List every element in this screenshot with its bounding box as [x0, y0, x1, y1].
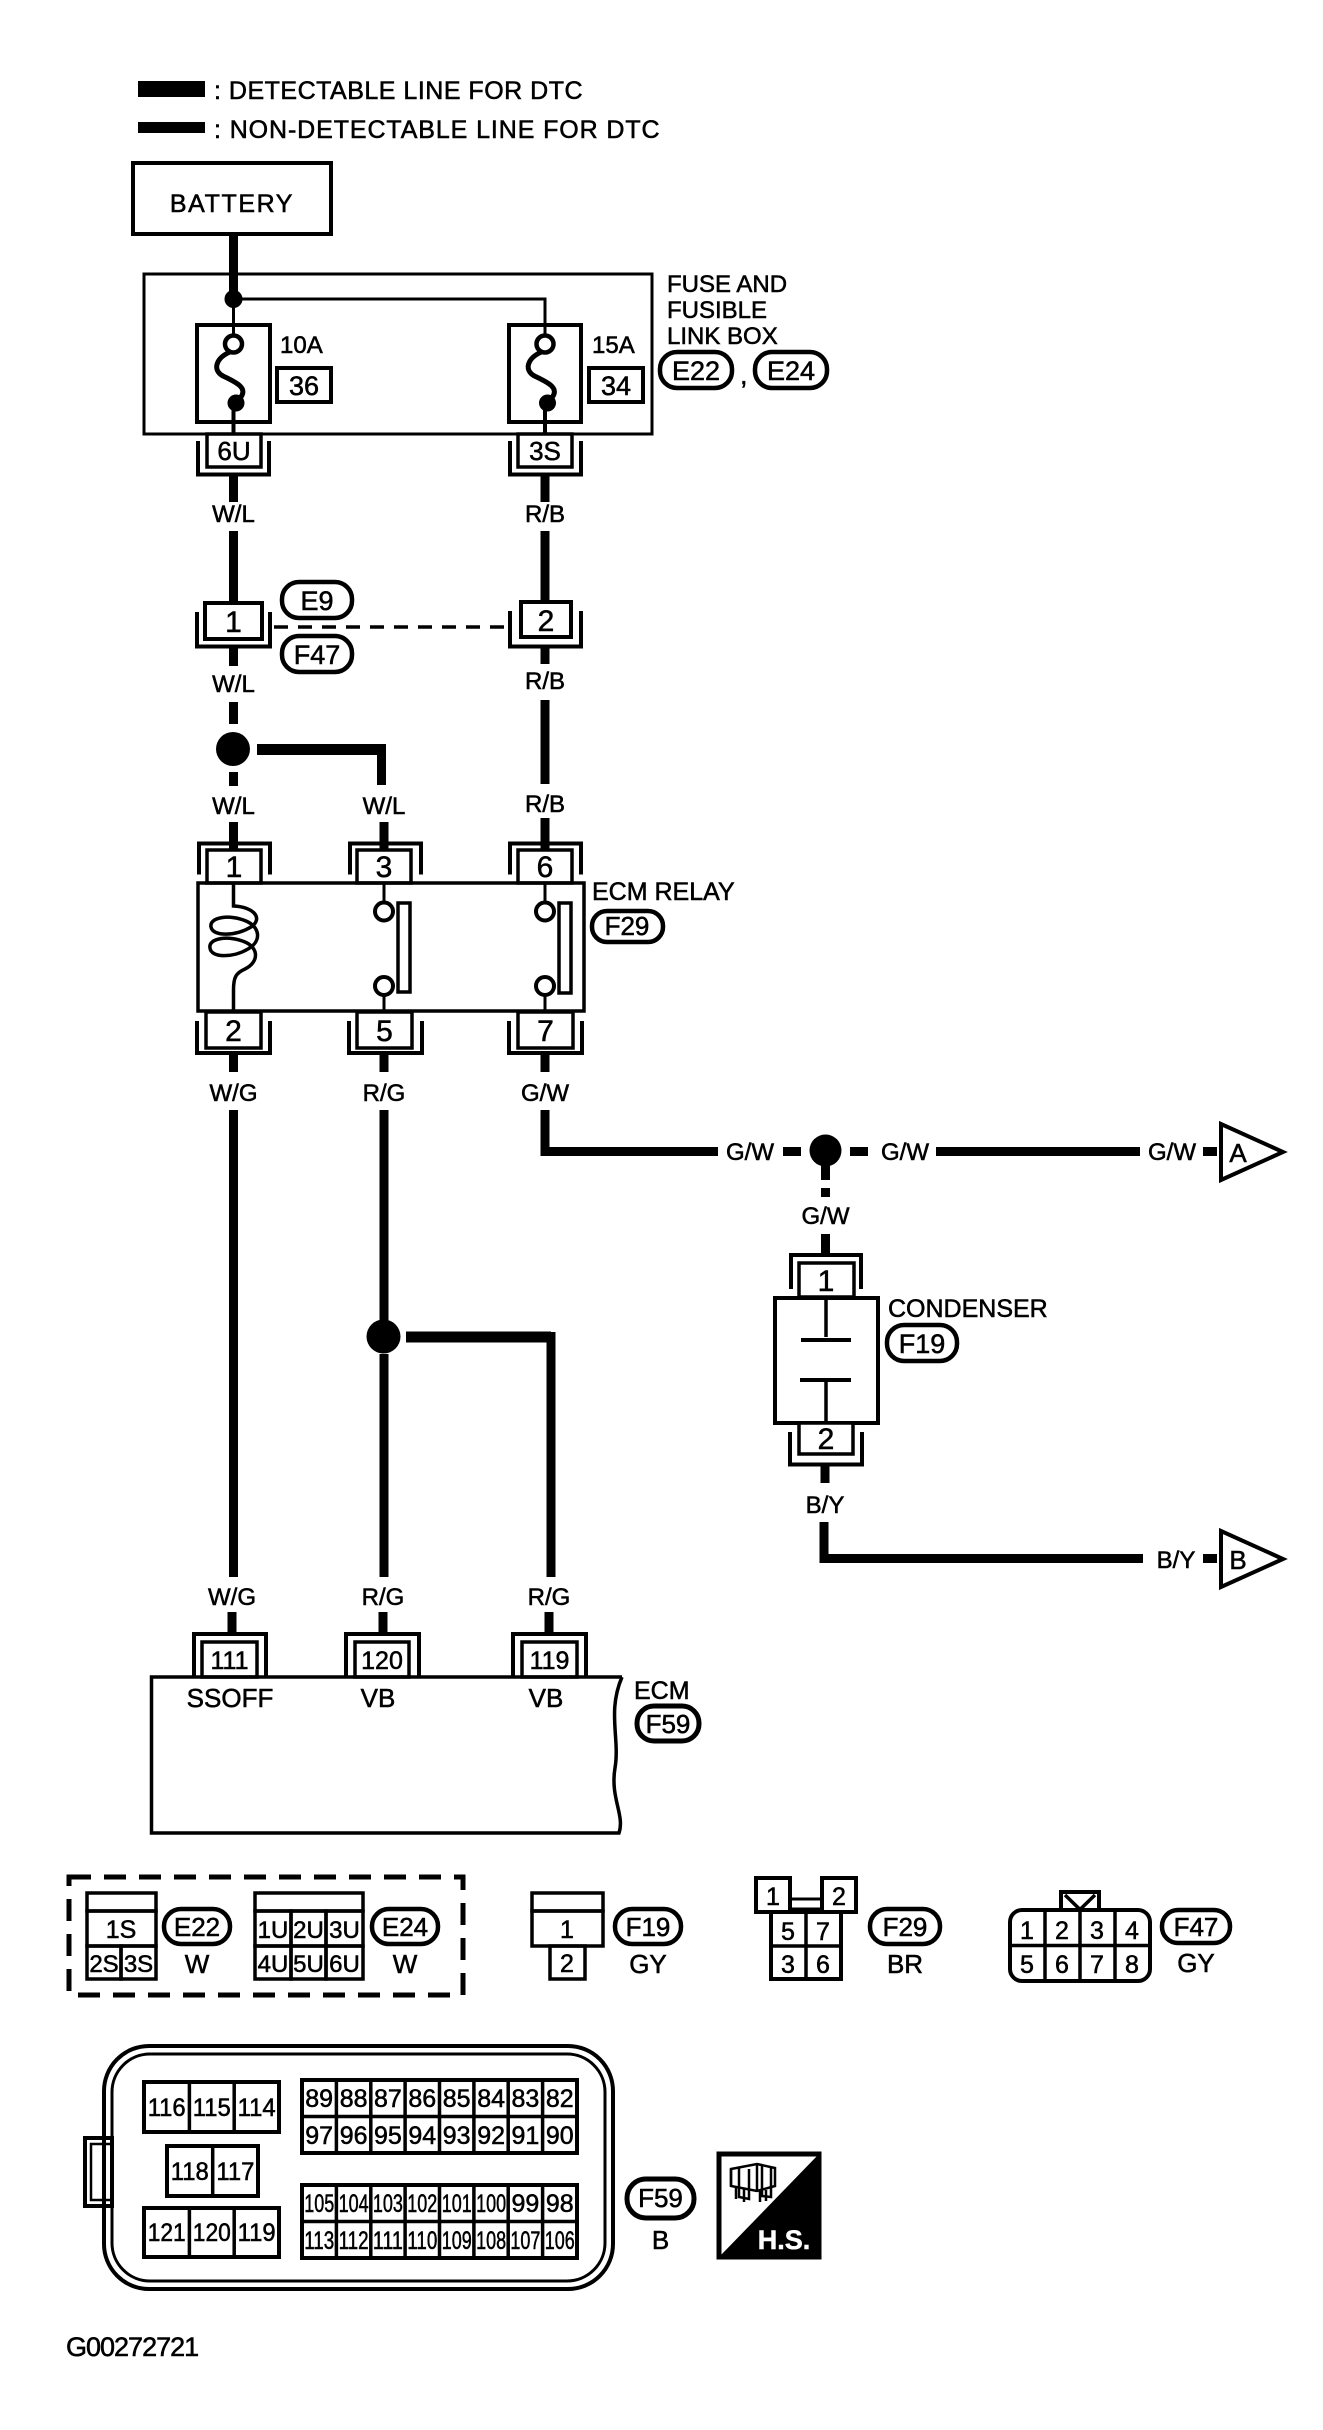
battery box [133, 163, 331, 234]
svg-text:W/G: W/G [208, 1584, 256, 1611]
ECM connector grid lower [302, 2185, 577, 2258]
dashed link E9-F47 [274, 625, 508, 629]
svg-text:1: 1 [818, 1265, 835, 1298]
wire node to left fuse [232, 299, 235, 335]
svg-text:118: 118 [171, 2158, 209, 2186]
fuse and fusible link box outline [144, 274, 652, 434]
svg-text:W/L: W/L [363, 793, 406, 820]
connector ref F47 oval [282, 636, 352, 672]
svg-text:W: W [393, 1949, 418, 1979]
svg-text:88: 88 [340, 2085, 368, 2113]
relay coil [210, 883, 258, 1012]
relay pin 2 terminal [206, 1012, 261, 1048]
relay contact pin3-5 [383, 883, 386, 903]
svg-text:96: 96 [340, 2122, 368, 2150]
wire pin1 down stub [229, 648, 238, 666]
ECM connector left tab [85, 2138, 112, 2206]
relay contact pin6-7 [544, 883, 547, 903]
relay pin 7 terminal [518, 1012, 573, 1048]
connector ref F59 oval [637, 1706, 699, 1741]
junction node W/L [216, 732, 250, 766]
svg-text:120: 120 [193, 2219, 231, 2247]
junction node R/G [367, 1320, 401, 1354]
dashed group box E22/E24 [69, 1877, 463, 1995]
H.S. logo [719, 2154, 819, 2257]
fuse number 36 box [277, 368, 331, 402]
svg-text:E24: E24 [767, 356, 815, 386]
svg-text:97: 97 [305, 2122, 333, 2150]
svg-text:2: 2 [832, 1883, 846, 1911]
dash [1203, 1147, 1217, 1156]
connector ref E22 oval [660, 352, 732, 388]
legend non-detectable bar [138, 122, 205, 133]
fuse 15A element [537, 336, 554, 353]
wire W/G long [229, 1110, 238, 1577]
svg-text:107: 107 [510, 2227, 540, 2255]
off-page triangle B [1221, 1531, 1283, 1587]
svg-text:3: 3 [376, 851, 393, 884]
svg-text:86: 86 [408, 2085, 436, 2113]
legend detectable bar [138, 81, 205, 97]
svg-text:102: 102 [407, 2190, 437, 2218]
wire pin2 stub [229, 1053, 238, 1072]
fuse number 34 box [589, 368, 643, 402]
svg-text:R/G: R/G [528, 1584, 571, 1611]
svg-text:GY: GY [629, 1949, 667, 1979]
svg-text:95: 95 [374, 2122, 402, 2150]
svg-text:121: 121 [148, 2219, 186, 2247]
svg-text:B: B [652, 2225, 669, 2255]
ECM relay body [198, 883, 584, 1011]
svg-text:F19: F19 [899, 1329, 946, 1359]
svg-text:B/Y: B/Y [806, 1492, 845, 1519]
wire fuse 10A to 6U [232, 410, 236, 434]
svg-text:5: 5 [376, 1015, 393, 1048]
svg-text:1: 1 [560, 1916, 574, 1944]
svg-text:109: 109 [442, 2227, 472, 2255]
svg-text:92: 92 [477, 2122, 505, 2150]
connector ref E22 oval 2 [164, 1909, 230, 1944]
svg-text:R/G: R/G [362, 1584, 405, 1611]
svg-text:LINK BOX: LINK BOX [667, 323, 778, 350]
svg-text:83: 83 [511, 2085, 539, 2113]
terminal 6U [198, 441, 269, 475]
ECM connector group 121-119 [144, 2208, 279, 2257]
connector ref E24 oval [755, 352, 827, 388]
svg-text:7: 7 [537, 1015, 554, 1048]
svg-text:111: 111 [210, 1647, 248, 1675]
connector face F47 [1010, 1910, 1150, 1981]
svg-text:119: 119 [238, 2219, 276, 2247]
fuse 10A element [225, 336, 242, 353]
svg-text:7: 7 [1090, 1951, 1104, 1979]
wire pin2 stub [821, 1465, 830, 1484]
wire R/G lower [380, 1354, 389, 1577]
svg-text:G/W: G/W [1148, 1139, 1196, 1166]
wire G/W to A [936, 1147, 1140, 1156]
svg-text:BATTERY: BATTERY [170, 190, 294, 218]
wire to E9 pin2 [541, 531, 550, 603]
svg-text:E22: E22 [174, 1912, 220, 1942]
svg-text:34: 34 [601, 371, 631, 401]
svg-text:114: 114 [238, 2094, 276, 2122]
svg-text:VB: VB [361, 1683, 396, 1713]
svg-text:G/W: G/W [726, 1139, 774, 1166]
svg-text:: DETECTABLE LINE FOR DTC: : DETECTABLE LINE FOR DTC [214, 77, 583, 105]
svg-text:ECM: ECM [634, 1677, 690, 1705]
ECM connector outer shell [104, 2046, 613, 2289]
branch wire to relay pin 3 [257, 744, 382, 755]
svg-text:W/L: W/L [212, 671, 255, 698]
svg-text:A: A [1229, 1138, 1247, 1168]
svg-text:15A: 15A [592, 332, 635, 359]
svg-text:F47: F47 [1174, 1912, 1219, 1942]
svg-text:111: 111 [373, 2227, 403, 2255]
relay pin 1 terminal [199, 844, 270, 875]
svg-text:112: 112 [339, 2227, 369, 2255]
svg-text:103: 103 [373, 2190, 403, 2218]
svg-text:115: 115 [193, 2094, 231, 2122]
svg-text:117: 117 [216, 2158, 254, 2186]
svg-text:7: 7 [816, 1918, 830, 1946]
dashed wire segment [229, 702, 238, 724]
svg-text:5: 5 [781, 1918, 795, 1946]
svg-text:R/B: R/B [525, 668, 565, 695]
svg-text:1: 1 [225, 606, 242, 639]
relay pin 5 terminal [357, 1012, 412, 1048]
svg-text:4: 4 [1125, 1917, 1139, 1945]
svg-text:93: 93 [443, 2122, 471, 2150]
svg-text:119: 119 [530, 1647, 570, 1675]
fuse 10A body [197, 325, 270, 422]
connector ref F59 oval 2 [627, 2179, 694, 2218]
wire node to right fuse [234, 299, 546, 335]
svg-text:G/W: G/W [802, 1203, 850, 1230]
svg-text:6: 6 [816, 1951, 830, 1979]
svg-text:105: 105 [304, 2190, 334, 2218]
dash [821, 1234, 830, 1254]
svg-text:94: 94 [408, 2122, 436, 2150]
connector face F29 [756, 1878, 790, 1912]
relay pin 3 terminal [350, 844, 421, 875]
svg-text:99: 99 [511, 2190, 539, 2218]
wire pin5 stub [380, 1053, 389, 1072]
svg-text:F47: F47 [294, 640, 341, 670]
dashed wire below node [229, 772, 238, 786]
wire fuse 15A to 3S [543, 410, 547, 434]
svg-text:2: 2 [225, 1015, 242, 1048]
svg-text:B/Y: B/Y [1157, 1547, 1196, 1574]
H.S. connector icon [731, 2164, 775, 2202]
connector ref F19 oval [887, 1325, 957, 1361]
wire stubs into ECM [228, 1612, 237, 1634]
svg-text:2: 2 [818, 1423, 835, 1456]
svg-text:1U: 1U [258, 1917, 289, 1944]
svg-text:89: 89 [305, 2085, 333, 2113]
svg-text:10A: 10A [280, 332, 323, 359]
wire battery to fuse box [229, 234, 238, 299]
svg-text:1: 1 [766, 1883, 780, 1911]
relay pin 6 terminal [510, 844, 581, 875]
svg-text:F59: F59 [646, 1709, 691, 1739]
svg-text:1: 1 [226, 851, 243, 884]
svg-text:G00272721: G00272721 [66, 2332, 198, 2362]
svg-text:2: 2 [538, 605, 555, 638]
svg-text:2S: 2S [89, 1951, 118, 1978]
svg-text:2: 2 [1055, 1917, 1069, 1945]
svg-text:F59: F59 [638, 2183, 683, 2213]
wire 3S down [541, 475, 550, 503]
svg-text:6U: 6U [329, 1951, 360, 1978]
junction node G/W [810, 1135, 842, 1167]
svg-text:F29: F29 [605, 911, 650, 941]
svg-text:2U: 2U [293, 1917, 324, 1944]
fuse 15A body [509, 325, 581, 422]
svg-text:84: 84 [477, 2085, 505, 2113]
ECM connector grid upper [302, 2080, 577, 2153]
svg-text:G/W: G/W [521, 1080, 569, 1107]
wire into relay pin 1 [229, 822, 238, 852]
svg-text:FUSIBLE: FUSIBLE [667, 297, 767, 324]
condenser pin 1 terminal [791, 1255, 861, 1289]
branch wire R/G to pin 119 [406, 1332, 551, 1343]
svg-text:3S: 3S [529, 436, 561, 466]
svg-text:BR: BR [887, 1949, 923, 1979]
wire B/Y down and right [824, 1522, 1143, 1559]
svg-text:ECM RELAY: ECM RELAY [592, 878, 735, 906]
ECM box with torn edge [152, 1677, 623, 1833]
svg-text:4U: 4U [258, 1951, 289, 1978]
wire 3S column R/B [541, 648, 550, 664]
svg-text:W/L: W/L [212, 793, 255, 820]
svg-text:6: 6 [1055, 1951, 1069, 1979]
svg-text:120: 120 [361, 1647, 403, 1675]
ECM connector group 116-114 [144, 2082, 279, 2132]
ECM pin 120 terminal [346, 1634, 419, 1676]
connector face F47 key [1061, 1892, 1099, 1910]
wire 6U down [229, 475, 238, 503]
svg-text:5U: 5U [293, 1951, 324, 1978]
svg-text:E22: E22 [672, 356, 720, 386]
ECM pin 111 terminal [194, 1634, 266, 1676]
svg-text:113: 113 [304, 2227, 334, 2255]
svg-text:F29: F29 [883, 1912, 928, 1942]
svg-text:VB: VB [529, 1683, 564, 1713]
capacitor symbol [824, 1298, 828, 1337]
svg-text:106: 106 [545, 2227, 575, 2255]
wire to E9 pin1 [229, 531, 238, 603]
connector ref F47 oval 2 [1162, 1910, 1230, 1943]
svg-text:91: 91 [511, 2122, 539, 2150]
svg-text:8: 8 [1125, 1951, 1139, 1979]
svg-text:W/G: W/G [210, 1080, 258, 1107]
svg-text:5: 5 [1020, 1951, 1034, 1979]
svg-text:R/B: R/B [525, 791, 565, 818]
svg-text:H.S.: H.S. [758, 2225, 811, 2255]
svg-text:2: 2 [560, 1950, 574, 1978]
svg-text:CONDENSER: CONDENSER [888, 1295, 1048, 1323]
dash [850, 1147, 868, 1156]
ECM connector group 118-117 [167, 2146, 258, 2196]
svg-text:98: 98 [546, 2190, 574, 2218]
svg-text:108: 108 [476, 2227, 506, 2255]
svg-text:3: 3 [781, 1951, 795, 1979]
wire G/W down and right [545, 1110, 718, 1152]
wire pin7 stub [541, 1053, 550, 1072]
junction node in fuse box [225, 290, 243, 308]
connector E9/F47 pin 2 [521, 602, 571, 637]
svg-text:3S: 3S [124, 1951, 153, 1978]
svg-text:B: B [1229, 1545, 1246, 1575]
svg-text:,: , [740, 360, 748, 390]
dash [1203, 1554, 1217, 1563]
svg-text:SSOFF: SSOFF [187, 1683, 274, 1713]
svg-text:3: 3 [1090, 1917, 1104, 1945]
svg-text:82: 82 [546, 2085, 574, 2113]
svg-text:100: 100 [476, 2190, 506, 2218]
wire R/G upper [380, 1110, 389, 1321]
connector ref E9 oval [282, 582, 352, 618]
svg-text:116: 116 [148, 2094, 186, 2122]
condenser body [775, 1298, 878, 1423]
svg-text:85: 85 [443, 2085, 471, 2113]
svg-text:36: 36 [289, 371, 319, 401]
connector face E24 [255, 1893, 363, 1911]
connector face E22 [87, 1893, 156, 1911]
svg-text:GY: GY [1177, 1948, 1215, 1978]
svg-text:FUSE AND: FUSE AND [667, 271, 787, 298]
dashed wire node to condenser [821, 1161, 830, 1180]
svg-text:87: 87 [374, 2085, 402, 2113]
dash [783, 1147, 801, 1156]
connector E9/F47 pin 1 [205, 603, 262, 639]
svg-text:R/G: R/G [363, 1080, 406, 1107]
terminal 3S [510, 441, 581, 475]
wire into relay pin 3 [380, 822, 389, 852]
svg-text:90: 90 [546, 2122, 574, 2150]
svg-text:6: 6 [537, 851, 554, 884]
svg-text:3U: 3U [329, 1917, 360, 1944]
connector ref F19 oval 2 [615, 1909, 681, 1944]
svg-text:1: 1 [1020, 1917, 1034, 1945]
svg-text:: NON-DETECTABLE LINE FOR DTC: : NON-DETECTABLE LINE FOR DTC [214, 116, 661, 144]
svg-text:G/W: G/W [881, 1139, 929, 1166]
svg-text:104: 104 [339, 2190, 369, 2218]
connector ref E24 oval 2 [372, 1909, 438, 1944]
ECM pin 119 terminal [513, 1634, 586, 1676]
svg-text:6U: 6U [217, 436, 250, 466]
svg-text:W/L: W/L [212, 501, 255, 528]
off-page triangle A [1221, 1124, 1283, 1180]
svg-text:R/B: R/B [525, 501, 565, 528]
svg-text:110: 110 [407, 2227, 437, 2255]
svg-text:F19: F19 [626, 1912, 671, 1942]
svg-text:W: W [185, 1949, 210, 1979]
connector ref F29 oval 2 [870, 1909, 940, 1944]
svg-text:E9: E9 [300, 586, 333, 616]
connector face F19 [532, 1893, 603, 1911]
condenser pin 2 terminal [799, 1423, 853, 1454]
connector ref F29 oval [592, 911, 663, 942]
svg-text:1S: 1S [106, 1916, 137, 1944]
svg-text:E24: E24 [382, 1912, 428, 1942]
svg-text:101: 101 [442, 2190, 472, 2218]
